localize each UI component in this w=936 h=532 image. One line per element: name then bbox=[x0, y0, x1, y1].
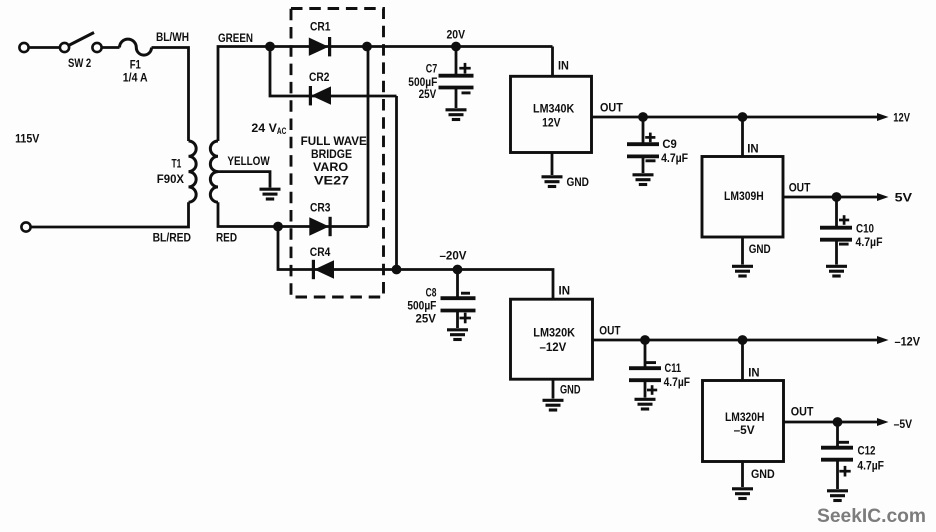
diode CR2 bbox=[310, 86, 331, 105]
label C8 plus bbox=[460, 313, 471, 324]
svg-text:RED: RED bbox=[216, 231, 237, 245]
svg-text:5V: 5V bbox=[895, 191, 914, 205]
capacitor C11 4.7uF bbox=[629, 340, 661, 409]
wire switch to fuse bbox=[102, 46, 120, 49]
svg-text:LM309H: LM309H bbox=[724, 189, 764, 203]
svg-text:BRIDGE: BRIDGE bbox=[311, 147, 352, 161]
node -5V junction C12 bbox=[833, 417, 843, 427]
svg-text:GND: GND bbox=[560, 383, 581, 397]
wire node RED down to CR4 bbox=[278, 227, 397, 270]
node 20V junction bbox=[451, 42, 461, 52]
svg-text:CR2: CR2 bbox=[309, 70, 330, 84]
label C8 minus bbox=[461, 292, 470, 295]
wire CR3 cathode up to positive rail bbox=[367, 47, 370, 227]
svg-text:500µF: 500µF bbox=[407, 298, 436, 312]
ground LM320H bbox=[732, 489, 753, 499]
wire BL/WH fuse to transformer primary bbox=[152, 48, 189, 142]
label C11 plus bbox=[647, 385, 657, 395]
wire YELLOW center tap bbox=[218, 172, 270, 188]
svg-text:–12V: –12V bbox=[540, 340, 568, 354]
svg-text:OUT: OUT bbox=[600, 100, 623, 114]
wire negative rail to LM320K IN bbox=[397, 270, 554, 300]
svg-text:–5V: –5V bbox=[734, 423, 756, 437]
node -12V junction C11 bbox=[640, 335, 650, 345]
label C12 minus bbox=[837, 441, 849, 444]
svg-text:OUT: OUT bbox=[599, 323, 621, 337]
node RED junction bbox=[273, 222, 283, 232]
transformer T1 secondary winding bbox=[210, 141, 218, 202]
node GREEN junction bbox=[265, 42, 275, 52]
diode CR1 bbox=[309, 37, 330, 56]
svg-text:IN: IN bbox=[558, 58, 569, 72]
svg-text:BL/WH: BL/WH bbox=[156, 30, 189, 44]
capacitor C9 4.7uF bbox=[627, 117, 659, 185]
ground LM320K bbox=[543, 400, 564, 410]
svg-text:IN: IN bbox=[748, 365, 759, 379]
label C9 minus bbox=[646, 159, 656, 162]
wire node GREEN down to CR2 bbox=[270, 47, 397, 97]
wire LM320H GND bbox=[741, 462, 744, 488]
wire LM340K GND bbox=[551, 153, 554, 176]
svg-text:C8: C8 bbox=[426, 285, 437, 299]
wire GREEN secondary top to rail bbox=[218, 47, 553, 142]
svg-text:115V: 115V bbox=[15, 132, 40, 146]
svg-text:–20V: –20V bbox=[440, 249, 468, 263]
svg-text:12V: 12V bbox=[893, 111, 910, 125]
regulator U1 LM340K 12V bbox=[511, 76, 592, 152]
dashed bridge outline VARO VE27 bbox=[291, 9, 384, 298]
capacitor C8 500uF 25V bbox=[441, 274, 476, 340]
arrow 5V bbox=[877, 193, 889, 201]
svg-text:LM320K: LM320K bbox=[533, 326, 575, 340]
regulator U2 LM309H bbox=[702, 157, 783, 238]
svg-text:4.7µF: 4.7µF bbox=[857, 458, 884, 472]
node 12V junction LM309H IN bbox=[738, 112, 748, 122]
svg-text:4.7µF: 4.7µF bbox=[661, 151, 688, 165]
node -20V junction bbox=[453, 265, 463, 275]
wire LM309H GND bbox=[741, 237, 744, 265]
wire terminal to switch bbox=[29, 46, 60, 49]
label C10 plus bbox=[839, 215, 849, 225]
svg-text:4.7µF: 4.7µF bbox=[856, 235, 883, 249]
node bridge negative junction bbox=[392, 265, 402, 275]
fuse F1 1/4A bbox=[120, 39, 152, 55]
regulator U3 LM320K -12V bbox=[511, 299, 593, 379]
svg-text:GND: GND bbox=[749, 242, 771, 256]
terminal bottom-left input bbox=[21, 222, 30, 231]
capacitor C12 4.7uF bbox=[821, 422, 853, 501]
diode CR4 bbox=[313, 260, 334, 279]
label C11 minus bbox=[646, 361, 656, 364]
label C7 plus bbox=[459, 63, 470, 74]
svg-text:IN: IN bbox=[747, 142, 758, 156]
wire -12V output rail bbox=[593, 339, 878, 342]
svg-text:C10: C10 bbox=[856, 221, 874, 235]
svg-text:IN: IN bbox=[559, 283, 571, 297]
svg-text:12V: 12V bbox=[542, 115, 561, 129]
wire LM309H IN from 12V rail bbox=[741, 117, 744, 157]
arrow -12V bbox=[877, 336, 889, 344]
svg-text:SW 2: SW 2 bbox=[68, 56, 91, 70]
svg-text:1/4 A: 1/4 A bbox=[123, 70, 148, 84]
svg-text:–12V: –12V bbox=[895, 334, 921, 348]
node -12V junction LM320H IN bbox=[738, 335, 748, 345]
svg-text:T1: T1 bbox=[172, 157, 182, 171]
svg-text:LM320H: LM320H bbox=[725, 410, 764, 424]
transformer T1 primary winding bbox=[189, 141, 197, 202]
wire -5V output bbox=[784, 421, 878, 424]
svg-text:F90X: F90X bbox=[157, 172, 185, 186]
wire CR2 anode down to negative rail bbox=[395, 96, 398, 270]
ground LM309H bbox=[732, 266, 753, 276]
terminal top-left input bbox=[19, 43, 28, 52]
wire 5V output bbox=[783, 196, 877, 199]
ground yellow center tap bbox=[260, 189, 281, 199]
node bridge positive junction bbox=[362, 42, 372, 52]
arrow 12V bbox=[877, 113, 889, 121]
svg-text:25V: 25V bbox=[419, 87, 437, 101]
label C7 minus bbox=[462, 91, 471, 94]
svg-text:CR4: CR4 bbox=[310, 245, 331, 259]
node 12V junction C9 bbox=[638, 112, 648, 122]
svg-text:VARO: VARO bbox=[313, 160, 348, 174]
capacitor C7 500uF 25V bbox=[439, 51, 474, 120]
svg-text:SeekIC.com: SeekIC.com bbox=[817, 505, 926, 527]
svg-text:GND: GND bbox=[751, 467, 775, 481]
svg-text:FULL WAVE: FULL WAVE bbox=[301, 134, 367, 148]
label C10 minus bbox=[839, 243, 849, 246]
svg-text:BL/RED: BL/RED bbox=[153, 231, 192, 245]
capacitor C10 4.7uF bbox=[820, 197, 852, 276]
svg-text:C12: C12 bbox=[858, 444, 876, 458]
label C9 plus bbox=[645, 133, 655, 143]
svg-text:C11: C11 bbox=[665, 361, 682, 375]
svg-text:OUT: OUT bbox=[791, 405, 814, 419]
switch SW2 bbox=[60, 33, 102, 53]
arrow -5V bbox=[877, 418, 889, 426]
wire 12V output rail bbox=[592, 116, 878, 119]
regulator U4 LM320H -5V bbox=[703, 381, 784, 462]
label C12 plus bbox=[839, 466, 850, 477]
svg-text:24 VAC: 24 VAC bbox=[251, 121, 286, 136]
wire RED secondary bottom bbox=[218, 202, 368, 226]
wire IN drop to LM340K bbox=[551, 47, 554, 77]
svg-text:CR1: CR1 bbox=[310, 19, 331, 33]
svg-text:OUT: OUT bbox=[789, 181, 811, 195]
svg-text:C7: C7 bbox=[426, 62, 438, 76]
svg-text:GND: GND bbox=[567, 175, 590, 189]
svg-text:LM340K: LM340K bbox=[533, 102, 574, 116]
svg-text:20V: 20V bbox=[447, 28, 466, 42]
svg-text:–5V: –5V bbox=[894, 417, 913, 431]
svg-text:4.7µF: 4.7µF bbox=[664, 375, 690, 389]
svg-text:GREEN: GREEN bbox=[218, 31, 253, 45]
ground LM340K bbox=[542, 177, 563, 187]
svg-text:25V: 25V bbox=[416, 311, 437, 325]
svg-text:C9: C9 bbox=[662, 137, 677, 151]
svg-text:YELLOW: YELLOW bbox=[227, 154, 270, 168]
diode CR3 bbox=[309, 217, 330, 236]
node 5V junction C10 bbox=[832, 192, 842, 202]
svg-text:CR3: CR3 bbox=[310, 200, 331, 214]
svg-text:VE27: VE27 bbox=[314, 174, 349, 188]
wire primary bottom BL/RED to terminal bbox=[31, 202, 189, 227]
wire LM320H IN from -12V rail bbox=[741, 340, 744, 381]
wire LM320K GND bbox=[552, 379, 555, 398]
